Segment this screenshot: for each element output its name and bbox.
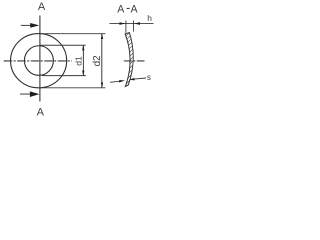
top section arrow bbox=[21, 24, 32, 26]
right view centerline bbox=[124, 60, 145, 62]
s leader left with arrow bbox=[110, 81, 120, 82]
h dimension line bbox=[110, 23, 154, 25]
svg-text:h: h bbox=[147, 13, 152, 23]
h extension line right bbox=[133, 21, 135, 32]
svg-text:A: A bbox=[37, 106, 45, 118]
svg-text:d2: d2 bbox=[92, 55, 103, 66]
horizontal centerline bbox=[4, 60, 72, 62]
svg-text:A: A bbox=[38, 1, 46, 13]
section hatching bbox=[118, 18, 140, 112]
vertical section line A-A bbox=[39, 16, 41, 102]
d1 extension line top bbox=[40, 44, 86, 46]
h arrowhead right bbox=[134, 22, 140, 25]
d1 dimension line bbox=[82, 45, 84, 76]
svg-text:s: s bbox=[147, 73, 151, 82]
h extension line left bbox=[125, 21, 127, 33]
svg-text:A: A bbox=[117, 3, 125, 15]
h arrowhead left bbox=[119, 22, 125, 25]
svg-text:d1: d1 bbox=[74, 56, 84, 66]
s leader right with arrow bbox=[134, 78, 146, 79]
washer front view: outer circle d2 bbox=[11, 34, 67, 88]
d2 dimension line bbox=[101, 34, 103, 88]
svg-text:A: A bbox=[131, 3, 139, 15]
d2 extension line top bbox=[40, 33, 105, 35]
bottom section arrow bbox=[20, 93, 32, 95]
washer front view: inner hole circle d1 bbox=[24, 46, 53, 76]
d1 extension line bottom bbox=[42, 75, 86, 77]
d2 extension line bottom bbox=[40, 87, 105, 89]
